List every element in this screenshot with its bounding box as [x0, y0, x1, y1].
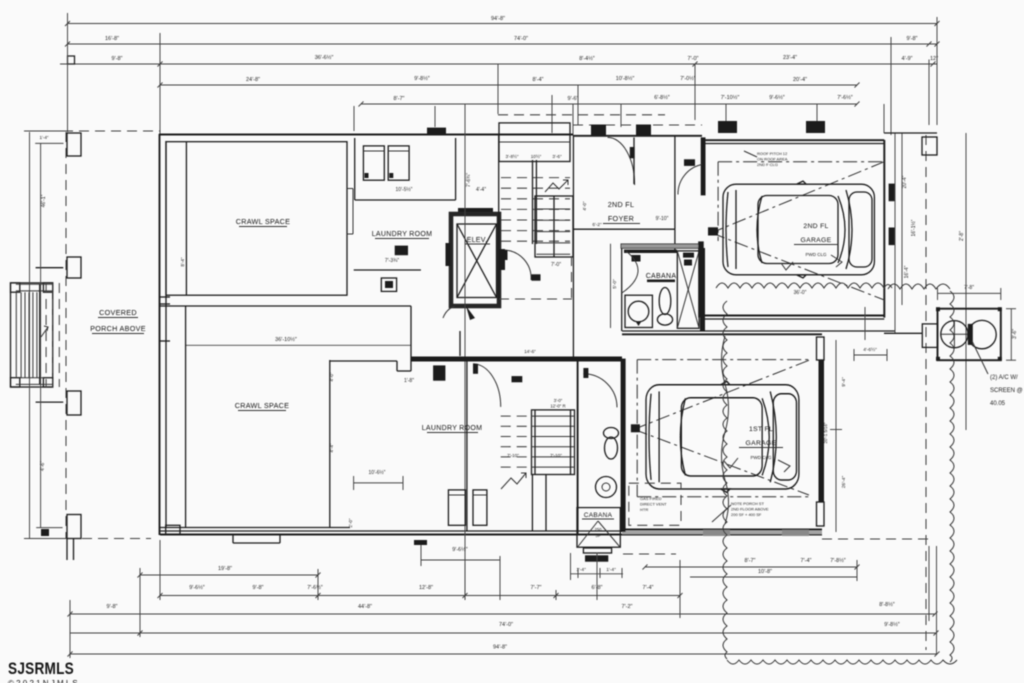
garage2 right wall blobs: [889, 184, 895, 202]
ac fan circle 2: [968, 320, 996, 348]
toilet upper: [659, 288, 671, 315]
sump box 1: [395, 246, 408, 256]
wall stairs left: [498, 135, 500, 300]
cabana label box with X: [577, 508, 620, 548]
svg-text:46'-1": 46'-1": [41, 194, 47, 207]
svg-text:10½": 10½": [531, 153, 542, 159]
wall garage1 bottom (double): [622, 529, 822, 531]
svg-text:7'-4": 7'-4": [643, 585, 654, 591]
svg-text:8'-4": 8'-4": [533, 77, 544, 83]
svg-text:DIRECT VENT: DIRECT VENT: [640, 502, 667, 507]
door sill top wall left: [427, 128, 446, 134]
stair lower solid box: [532, 410, 575, 475]
crawl notch right: [347, 188, 353, 190]
dim 10-6 lower: [354, 482, 403, 484]
svg-text:9'-4": 9'-4": [841, 377, 847, 387]
dashed line below garage1 right: [822, 538, 930, 540]
svg-text:4'-0": 4'-0": [582, 201, 587, 211]
svg-text:PWD CLG: PWD CLG: [805, 252, 827, 257]
svg-text:8'-7": 8'-7": [745, 558, 756, 564]
room 1st fl garage inner dash-dot: [637, 359, 809, 361]
ac unit box: [938, 309, 1001, 361]
svg-text:LAUNDRY ROOM: LAUNDRY ROOM: [372, 231, 433, 238]
svg-text:CRAWL SPACE: CRAWL SPACE: [236, 217, 291, 226]
wall building top: [159, 134, 573, 136]
door cabana arc: [622, 251, 638, 293]
stair dashed boundary top: [498, 114, 665, 116]
toilet lower: [604, 428, 619, 439]
svg-text:8'-7": 8'-7": [394, 96, 405, 102]
svg-text:8'-4½": 8'-4½": [579, 55, 595, 62]
stair center rail: [532, 160, 534, 244]
svg-text:ON ROOF AREA: ON ROOF AREA: [757, 157, 788, 162]
porch dashed outline vertical: [65, 132, 67, 539]
wall laundry mid: [355, 199, 456, 201]
sink box upper: [625, 295, 652, 327]
svg-text:7'-2": 7'-2": [622, 604, 633, 610]
room 2nd fl garage inner dash-dot: [718, 161, 884, 163]
svg-text:NOTE PORCH ST: NOTE PORCH ST: [731, 501, 764, 506]
cabana counter dark bar: [624, 250, 677, 253]
svg-text:7'-6½": 7'-6½": [307, 584, 323, 591]
svg-text:CABANA: CABANA: [646, 273, 677, 280]
right extension lines: [894, 133, 896, 333]
dimension 36-10 line: [186, 344, 411, 346]
dim 4-6 right of garage1: [854, 354, 887, 356]
svg-text:44'-8": 44'-8": [358, 604, 372, 610]
wall foyer right lower stub: [674, 229, 676, 252]
svg-text:7'-7": 7'-7": [531, 585, 542, 591]
revision cloud top right segment: [888, 284, 950, 289]
wall garage1 right thick: [819, 360, 825, 502]
wall cabana right thick: [700, 248, 705, 331]
porch bottom stub lines: [66, 539, 68, 561]
svg-text:7'-8½": 7'-8½": [830, 557, 846, 564]
elevator U1 shaft: [451, 214, 499, 306]
tick marks bottom: [158, 593, 163, 598]
svg-text:12'-0" R: 12'-0" R: [550, 404, 565, 409]
svg-text:16'-4": 16'-4": [904, 265, 910, 278]
car 1st floor garage: [646, 381, 799, 492]
wall mid-left horizontal: [160, 305, 411, 307]
stair treads dashed: [501, 177, 570, 179]
car 2nd floor garage: [723, 181, 874, 278]
svg-text:4'-6½": 4'-6½": [863, 346, 877, 353]
svg-text:26'-4": 26'-4": [841, 476, 847, 489]
wall foyer bottom: [573, 228, 675, 230]
elev side tabs: [446, 243, 451, 266]
svg-text:36'-10½": 36'-10½": [275, 336, 297, 343]
ac disconnect box: [922, 324, 937, 348]
svg-text:200 SF + 400 SF: 200 SF + 400 SF: [731, 512, 762, 517]
svg-text:ELEV.: ELEV.: [467, 237, 488, 244]
wall cabana lower left: [577, 359, 579, 534]
svg-text:8'-4": 8'-4": [180, 257, 185, 267]
wall building left (double): [159, 134, 161, 535]
garage door opening 1: [703, 530, 730, 536]
wall laundry lower vertical: [466, 359, 468, 531]
wall elev-laundry: [455, 138, 457, 200]
door arc laundry lower: [473, 364, 501, 407]
dimension line bottom partial 9-6: [421, 559, 500, 561]
svg-text:2ND F CLG: 2ND F CLG: [757, 162, 778, 167]
svg-text:10'-5½": 10'-5½": [396, 186, 413, 193]
svg-text:7'-10": 7'-10": [550, 453, 562, 458]
svg-text:9'-8": 9'-8": [112, 56, 123, 62]
sink lower: [596, 477, 617, 498]
svg-text:9'-6½": 9'-6½": [769, 94, 785, 101]
stair lower flight box: [535, 196, 573, 257]
stair bottom rails: [531, 475, 533, 532]
porch stair outer box: [11, 283, 53, 387]
svg-text:2ND FL: 2ND FL: [803, 223, 828, 230]
porch dashed bottom: [66, 538, 151, 540]
svg-text:LAUNDRY ROOM: LAUNDRY ROOM: [422, 425, 483, 432]
svg-text:20'-4": 20'-4": [902, 175, 908, 188]
svg-text:2ND FL: 2ND FL: [608, 200, 635, 209]
ac leader line: [972, 341, 988, 374]
wall cabana left upper: [621, 244, 623, 331]
door sill cabana upper: [632, 255, 641, 262]
sump box 2: [381, 278, 396, 291]
svg-text:FOYER: FOYER: [608, 214, 634, 223]
garage1 right dim vertical: [835, 340, 837, 532]
porch column 3: [67, 391, 81, 415]
svg-text:CABANA: CABANA: [584, 512, 613, 519]
garage2 V guide diagonal lower: [711, 233, 884, 300]
wall laundry lower: [354, 269, 421, 271]
revision cloud left edge: [723, 301, 727, 659]
svg-text:7'-3¾": 7'-3¾": [385, 258, 399, 264]
svg-text:9'-8½": 9'-8½": [884, 621, 900, 628]
svg-text:250: 250: [595, 527, 603, 532]
room upper crawl space box: [166, 142, 347, 296]
extension lines top: [67, 13, 69, 132]
svg-text:9'-6½": 9'-6½": [189, 584, 205, 591]
svg-text:7'-10": 7'-10": [507, 453, 519, 458]
svg-text:3'-8½": 3'-8½": [506, 153, 519, 159]
dimension line row4: [160, 84, 857, 86]
garage1 right pilaster top: [817, 337, 825, 360]
svg-text:7'-0": 7'-0": [551, 262, 561, 268]
wall foyer-laundry vertical: [459, 331, 461, 356]
bar blob lower: [512, 376, 523, 382]
svg-text:1'-4": 1'-4": [606, 567, 616, 573]
access dim verticals: [570, 553, 572, 580]
leader arrows garage1: [724, 458, 738, 468]
wall laundry top border: [354, 138, 356, 200]
bottom wall notch: [232, 535, 234, 543]
svg-text:20'-1 5/16": 20'-1 5/16": [823, 422, 828, 443]
svg-text:36'-6½": 36'-6½": [315, 54, 334, 61]
garage1 left vertex blob: [631, 424, 640, 432]
svg-text:SJSRMLS: SJSRMLS: [8, 660, 74, 678]
stair lower dashed treads: [501, 415, 532, 417]
svg-text:HTR: HTR: [640, 507, 648, 512]
svg-text:4'-9": 4'-9": [902, 56, 913, 62]
svg-text:3'-6": 3'-6": [1012, 329, 1018, 339]
extension lines bottom: [69, 600, 71, 658]
svg-text:10'-6½": 10'-6½": [369, 469, 386, 476]
svg-text:7'-10½": 7'-10½": [721, 94, 740, 101]
svg-text:7'-0": 7'-0": [688, 56, 699, 62]
svg-text:3'-6": 3'-6": [552, 154, 562, 159]
stair dashed boundary bottom: [499, 298, 572, 300]
svg-text:3'-0": 3'-0": [554, 398, 563, 403]
svg-text:2'-8": 2'-8": [959, 231, 965, 241]
svg-text:1ST FL: 1ST FL: [749, 426, 773, 433]
porch column top: [67, 133, 81, 156]
dimension line bottom left 19-8: [140, 574, 318, 576]
svg-text:94'-8": 94'-8": [491, 16, 505, 22]
extension line x465 vertical: [464, 104, 466, 600]
garage door opening 2: [782, 530, 809, 536]
door sill foyer top 2: [636, 125, 651, 136]
wall foyer-garage thick: [701, 137, 706, 195]
tick marks top: [65, 21, 70, 26]
svg-text:SCREEN @: SCREEN @: [990, 388, 1023, 394]
wall mid band between garages: [702, 315, 884, 317]
svg-text:5'-0": 5'-0": [612, 279, 618, 289]
cabana dim vertical 5-0: [610, 244, 612, 328]
svg-text:7'-8": 7'-8": [964, 285, 974, 291]
stair upper landing box: [499, 123, 570, 162]
svg-text:CRAWL SPACE: CRAWL SPACE: [235, 401, 290, 410]
svg-text:(2) A/C W/: (2) A/C W/: [990, 375, 1018, 381]
svg-text:19'-8": 19'-8": [218, 566, 232, 572]
porch column bottom: [67, 515, 81, 539]
wall foyer right: [674, 136, 676, 229]
door sill bottom center: [414, 540, 427, 545]
svg-text:40.05: 40.05: [990, 401, 1006, 407]
dimension line row3: [60, 63, 937, 65]
svg-text:10'-8½": 10'-8½": [616, 75, 635, 82]
dimension line bottom 74-0: [70, 632, 936, 634]
svg-text:6'-8½": 6'-8½": [654, 94, 670, 101]
svg-text:9'-6": 9'-6": [568, 96, 579, 102]
svg-text:24'-8": 24'-8": [246, 77, 260, 83]
dimension line row5: [361, 103, 857, 105]
cabana counter gray bar: [621, 244, 700, 248]
garage2 V guide diagonal upper: [711, 162, 884, 233]
svg-text:PORCH ABOVE: PORCH ABOVE: [90, 324, 146, 333]
svg-text:6'-2": 6'-2": [592, 222, 602, 227]
top right corner box: [922, 137, 937, 155]
ac right dim: [1010, 309, 1012, 361]
svg-text:7'-0½": 7'-0½": [680, 75, 696, 82]
stair direction arrow lower: [501, 473, 526, 489]
svg-text:© 2 0 2 1 N J M L S: © 2 0 2 1 N J M L S: [8, 679, 78, 683]
svg-text:SF: SF: [595, 533, 601, 538]
wall garage1 left thick: [621, 359, 626, 532]
closet label blobs: [684, 159, 695, 166]
svg-text:1'-8": 1'-8": [404, 378, 414, 384]
revision cloud right edge: [950, 291, 954, 662]
svg-text:10'-8": 10'-8": [758, 569, 772, 575]
left wall door stubs: [160, 296, 170, 298]
door arc cabana lower: [583, 374, 617, 408]
door sill garage2 top 1: [718, 121, 737, 133]
wall thick mid horizontal: [411, 357, 622, 362]
svg-text:9'-8": 9'-8": [907, 36, 918, 42]
dimension line top 94-8: [68, 23, 938, 25]
svg-text:74'-0": 74'-0": [499, 622, 513, 628]
door foyer-garage arc: [678, 165, 702, 195]
garage1 right pilaster bottom: [817, 502, 825, 526]
chase x-box upper: [677, 251, 699, 328]
revision cloud bottom edge: [727, 660, 957, 664]
dimension line bottom row 44-8: [160, 595, 680, 597]
svg-text:4'-6": 4'-6": [40, 461, 46, 471]
svg-text:4'-4": 4'-4": [476, 187, 486, 193]
svg-text:7'-6¾": 7'-6¾": [466, 173, 472, 187]
svg-text:12'-8": 12'-8": [419, 585, 433, 591]
garage bottom wall gray fill: [622, 531, 822, 535]
wall building bottom inner: [160, 530, 622, 532]
dimension line bottom 94-8: [70, 653, 937, 655]
svg-text:2'-0": 2'-0": [348, 518, 353, 528]
garage1 V guide diagonal upper: [634, 360, 809, 429]
porch stair treads vertical: [15, 292, 17, 378]
svg-text:PWD CLG: PWD CLG: [750, 455, 772, 460]
ac center blob: [968, 324, 973, 345]
washer dryer boxes upper: [363, 146, 384, 180]
svg-text:20'-4": 20'-4": [793, 77, 807, 83]
door foyer top arc: [608, 137, 635, 185]
svg-text:2ND FLOOR ABOVE: 2ND FLOOR ABOVE: [731, 507, 769, 512]
svg-text:7'-6½": 7'-6½": [837, 94, 853, 101]
svg-text:ROOF PITCH 12: ROOF PITCH 12: [757, 151, 788, 156]
svg-text:16'-8": 16'-8": [105, 36, 119, 42]
svg-text:9'-10": 9'-10": [656, 216, 669, 222]
porch stair stringer thick: [39, 284, 41, 384]
porch dashed top: [63, 130, 160, 132]
svg-text:GARAGE: GARAGE: [746, 440, 777, 447]
elevator shaft header: [458, 208, 493, 213]
building corner box bottom-left: [166, 525, 180, 534]
porch ticks: [36, 267, 64, 269]
access platform: [583, 548, 611, 553]
porch stair corner squares: [11, 283, 20, 292]
svg-text:GARAGE: GARAGE: [801, 237, 832, 244]
garage2 left vertex blob: [708, 227, 718, 235]
ac fan circle 1: [941, 321, 968, 348]
scallop line garage2: [716, 283, 892, 288]
wall laundry jog: [330, 360, 397, 362]
svg-text:36'-0": 36'-0": [794, 290, 807, 296]
elev door arc bottom: [443, 306, 455, 318]
door arc stairs left: [504, 250, 531, 280]
porch stair arrow: [41, 326, 48, 337]
wall garage2 left lower: [698, 241, 704, 317]
svg-text:9'-8½": 9'-8½": [414, 75, 430, 82]
left dim extension lines: [29, 132, 31, 539]
svg-text:94'-8": 94'-8": [493, 645, 507, 651]
match line wavy vertical garage1: [722, 336, 729, 524]
stair direction arrow upper: [545, 180, 568, 192]
svg-text:16'-1½": 16'-1½": [910, 219, 917, 236]
svg-text:14'-6": 14'-6": [524, 349, 536, 354]
dimension line bottom right rows: [645, 566, 857, 568]
wall bottom inner left segment: [160, 527, 350, 529]
ac dim line: [938, 292, 1001, 294]
washer dryer boxes lower: [448, 490, 465, 525]
svg-text:7'-4": 7'-4": [801, 558, 812, 564]
svg-text:1'-4": 1'-4": [40, 135, 49, 140]
svg-text:9'-8": 9'-8": [253, 585, 264, 591]
porch dashed edge lines: [45, 283, 47, 387]
access plate dark: [585, 555, 608, 561]
svg-text:COVERED: COVERED: [99, 308, 137, 317]
svg-text:8'-8½": 8'-8½": [879, 601, 895, 608]
wall garage2 top: [702, 139, 884, 141]
porch column 2: [67, 257, 81, 278]
svg-text:74'-0": 74'-0": [514, 36, 528, 42]
corner mark top-left: [68, 56, 75, 64]
door label blob: [532, 274, 541, 280]
wall garage2 right: [883, 140, 885, 318]
leader arrows garage2: [781, 262, 793, 270]
svg-text:9'-8": 9'-8": [107, 604, 118, 610]
door sill foyer top 1: [591, 125, 606, 136]
storage dashed box garage1: [629, 483, 681, 525]
door sill garage2 top 2: [806, 121, 825, 133]
dimension line 16-8 / 74-0 / 9-8: [68, 43, 938, 45]
svg-text:GAS FIRED: GAS FIRED: [640, 496, 662, 501]
svg-text:23'-4": 23'-4": [783, 55, 797, 61]
room lower crawl space box: [185, 306, 187, 527]
water heater box lower: [433, 365, 445, 380]
garage1 V guide diagonal lower: [634, 429, 809, 495]
wall foyer left: [572, 135, 574, 359]
